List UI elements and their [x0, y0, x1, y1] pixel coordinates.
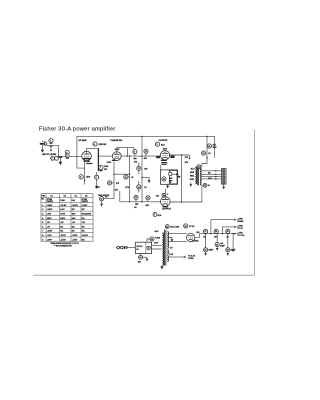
rectifier output jog: [195, 234, 199, 238]
wire V4 plate to transformer: [170, 185, 202, 202]
tube type callout 12DC62: [93, 142, 107, 146]
svg-text:170V: 170V: [60, 214, 65, 216]
svg-text:50: 50: [105, 197, 107, 199]
svg-text:100: 100: [214, 237, 217, 239]
wire input drop: [58, 145, 60, 156]
svg-text:-60V*: -60V*: [47, 239, 52, 241]
wire rail drop mid: [141, 136, 143, 201]
svg-text:17: 17: [147, 198, 149, 200]
capacitor C16 callout lower: [134, 195, 138, 202]
svg-text:SW: SW: [138, 261, 141, 263]
tube V2 triode phase inverter: [112, 152, 121, 161]
resistor R4 callout: [65, 154, 69, 158]
ground transformer bottom: [160, 266, 163, 270]
wire input top: [45, 144, 59, 146]
svg-text:-100V: -100V: [47, 205, 53, 207]
svg-text:28: 28: [215, 231, 217, 233]
capacitor C5 bars: [133, 158, 136, 159]
svg-text:BLU: BLU: [191, 168, 196, 170]
svg-text:8: 8: [80, 177, 81, 179]
node grid junction: [141, 155, 142, 156]
fuse inside box: [147, 246, 150, 249]
svg-text:16: 16: [208, 185, 210, 187]
wires interlock to transformer: [152, 245, 162, 249]
svg-text:INPUT LEVEL: INPUT LEVEL: [42, 154, 57, 156]
svg-text:20: 20: [208, 146, 210, 148]
svg-text:270: 270: [104, 169, 107, 171]
capacitor C16 bars: [135, 203, 138, 204]
heater wire arrow: [169, 255, 196, 260]
AC plug P1: [116, 246, 128, 249]
svg-text:HTRS: HTRS: [188, 258, 194, 260]
capacitor C2b bar: [66, 157, 69, 158]
ground below box: [166, 184, 169, 188]
svg-text:117V: 117V: [154, 243, 159, 245]
svg-text:NC(180V): NC(180V): [82, 214, 91, 216]
resistor R19 callout screen: [202, 151, 212, 155]
svg-text:12DC62: 12DC62: [98, 144, 107, 146]
svg-text:6.3V: 6.3V: [60, 209, 65, 211]
wire V1 to V2: [98, 155, 112, 157]
voltage chart table frame: [41, 194, 93, 242]
input jack J1: [40, 141, 47, 145]
capacitor C2 to ground: [59, 157, 63, 166]
svg-text:1500: 1500: [86, 177, 90, 179]
svg-text:V2: V2: [64, 195, 66, 197]
svg-text:AF AMP: AF AMP: [78, 139, 87, 142]
svg-text:115 AC: 115 AC: [136, 245, 143, 248]
svg-text:30: 30: [216, 244, 218, 246]
B+ rail arrow 275V: [234, 232, 245, 237]
svg-text:-170V: -170V: [60, 235, 66, 237]
svg-text:2: 2: [52, 158, 53, 160]
potentiometer R2 input level: [51, 157, 59, 161]
capacitor C5 callout on wire: [133, 150, 137, 157]
switch S1 callout: [138, 254, 147, 264]
svg-text:-170V: -170V: [72, 235, 78, 237]
resistor column R5 R6 plate loads: [98, 148, 111, 171]
speaker terminal strip TS1: [221, 169, 226, 185]
svg-text:27V: 27V: [125, 187, 129, 189]
table header row 2: [42, 199, 89, 203]
svg-text:5: 5: [134, 152, 135, 154]
svg-text:-100V: -100V: [82, 205, 88, 207]
table row lines: [41, 197, 93, 237]
resistor R9 callout: [95, 172, 99, 189]
svg-text:12AX7): 12AX7): [47, 200, 54, 203]
svg-text:-36.5V: -36.5V: [82, 235, 89, 237]
svg-text:NC: NC: [82, 218, 85, 220]
svg-text:2.7V: 2.7V: [96, 187, 101, 189]
svg-text:40MF: 40MF: [208, 249, 214, 252]
svg-text:7: 7: [100, 167, 101, 169]
svg-text:13: 13: [138, 168, 140, 170]
ground at switch: [146, 257, 149, 261]
svg-text:10W: 10W: [213, 147, 217, 149]
tube type callout 6L6 bottom: [153, 212, 162, 216]
table column lines: [46, 194, 81, 242]
svg-text:BRN: BRN: [190, 172, 195, 174]
svg-text:9: 9: [96, 177, 97, 179]
svg-text:22: 22: [204, 185, 206, 187]
riser 10V: [119, 191, 121, 202]
svg-text:-170V: -170V: [72, 239, 78, 241]
lower grid wire to V4: [120, 201, 161, 203]
page right rule: [254, 130, 256, 275]
svg-text:350-0-350: 350-0-350: [170, 227, 179, 229]
rectifier callout: [184, 224, 195, 228]
tube V1 triode 12DC62: [82, 151, 92, 161]
tap junction dots: [215, 170, 217, 172]
capacitor stack in box: [169, 172, 173, 183]
ground below terminal strip: [222, 184, 225, 189]
wire plate coupling vertical: [126, 148, 128, 157]
wire V3 plate right: [170, 154, 190, 156]
rail end drop: [214, 136, 216, 157]
secondary tap wires: [201, 171, 222, 179]
svg-text:15: 15: [100, 199, 102, 201]
svg-text:9: 9: [154, 214, 155, 216]
resistor R3 callout: [65, 151, 69, 155]
svg-text:18: 18: [163, 179, 165, 181]
svg-text:16: 16: [135, 197, 137, 199]
screen supply drop: [202, 136, 207, 167]
capacitor C3 bars: [99, 170, 102, 173]
ground below input jack: [41, 145, 44, 153]
interlock box: [135, 242, 151, 253]
resistor R7 callout: [99, 165, 109, 171]
resistor R18 callout in box: [162, 177, 166, 181]
resistor R23 callout grid: [156, 193, 169, 197]
resistor R20 callout 47K: [207, 143, 216, 149]
HV secondary wires to rectifier: [169, 233, 187, 241]
feedback box inner: [169, 170, 177, 184]
table body values: [42, 205, 91, 241]
branch wire 370V: [210, 218, 244, 234]
svg-text:31: 31: [204, 250, 206, 252]
svg-text:NC: NC: [72, 226, 75, 228]
svg-text:260MA: 260MA: [237, 220, 244, 223]
ground below balance: [100, 201, 103, 207]
svg-text:360: 360: [196, 232, 199, 234]
resistor R10 callout on V2 base: [104, 160, 130, 199]
svg-text:RED: RED: [190, 175, 195, 177]
wire V2 plate up: [117, 148, 128, 152]
resistor R1 callout on input wire: [49, 139, 53, 143]
svg-text:TO 6.3V: TO 6.3V: [188, 255, 196, 257]
resistor R10 callout: [108, 181, 120, 185]
power transformer T2: [162, 230, 168, 266]
svg-text:26: 26: [185, 226, 187, 228]
potentiometer R15 balance: [100, 197, 108, 201]
choke L3 callout: [226, 229, 230, 238]
svg-text:NC: NC: [82, 239, 85, 241]
tube V3 output 6L6: [160, 151, 169, 160]
svg-text:NC: NC: [60, 231, 63, 233]
B+ filter rail: [200, 233, 235, 235]
svg-text:330: 330: [156, 196, 159, 198]
svg-text:400: 400: [144, 157, 147, 160]
svg-text:5V 3A: 5V 3A: [189, 225, 195, 228]
svg-text:FUSE: FUSE: [155, 237, 161, 239]
ground transformer bottom left: [189, 183, 192, 187]
svg-text:10MF: 10MF: [220, 246, 226, 248]
arrow out of box: [172, 173, 180, 177]
svg-text:180V: 180V: [60, 218, 65, 220]
svg-text:32: 32: [227, 250, 229, 252]
svg-text:NC: NC: [72, 209, 75, 211]
svg-text:8: 8: [94, 144, 95, 146]
svg-text:Fisher 30-A power amplifier: Fisher 30-A power amplifier: [39, 126, 116, 132]
svg-text:-1.5V: -1.5V: [47, 235, 53, 237]
svg-text:-100V: -100V: [47, 231, 53, 233]
svg-text:OUTPUT: OUTPUT: [162, 208, 172, 210]
svg-text:-60V: -60V: [47, 214, 52, 216]
svg-text:270: 270: [116, 183, 119, 185]
svg-text:19: 19: [202, 153, 204, 155]
svg-text:29: 29: [227, 231, 229, 233]
svg-text:24V: 24V: [72, 213, 76, 216]
svg-text:1: 1: [50, 141, 51, 143]
transformer T1 callout: [197, 165, 201, 169]
resistor R13 callout: [134, 161, 149, 174]
svg-text:PHASE INV: PHASE INV: [111, 139, 123, 142]
svg-text:275: 275: [185, 157, 188, 159]
svg-text:12AX7): 12AX7): [82, 200, 89, 203]
ground arrow mid: [141, 177, 150, 183]
svg-text:-170V: -170V: [60, 239, 66, 241]
tube V4 output 6L6: [161, 197, 171, 208]
screen tie vertical: [181, 155, 183, 202]
filter capacitor C22: [226, 233, 237, 256]
wire V1 plate to load column: [87, 148, 99, 151]
test point arrow 26V: [185, 155, 191, 164]
svg-text:270K: 270K: [107, 162, 112, 164]
svg-text:OUTPUT: OUTPUT: [159, 140, 169, 142]
filter capacitor C21: [204, 233, 215, 256]
svg-text:NC: NC: [72, 231, 75, 233]
svg-text:21: 21: [198, 166, 200, 168]
node rail junctions: [141, 136, 142, 137]
node input junction: [58, 156, 59, 157]
svg-text:5U4GB: 5U4GB: [192, 239, 199, 242]
choke L1 callout: [203, 229, 208, 238]
svg-text:TO V2: TO V2: [237, 228, 242, 230]
tube type callout 6L6 top: [155, 142, 165, 147]
resistor R17 callout lower: [146, 196, 150, 207]
resistor R14 callout: [137, 181, 148, 193]
capacitor C1 bars: [50, 143, 53, 151]
svg-text:25: 25: [166, 226, 168, 228]
svg-text:-10.5V: -10.5V: [60, 205, 67, 207]
feedback wire to V1 cathode: [77, 136, 85, 168]
svg-text:-10.5V: -10.5V: [72, 205, 79, 207]
svg-text:NC: NC: [82, 226, 85, 228]
node dots lower wire: [129, 201, 130, 202]
feedback box outer: [161, 170, 178, 184]
tube V1 cathode parts: [83, 158, 93, 164]
svg-text:10: 10: [108, 183, 110, 185]
svg-text:9: 9: [157, 144, 158, 146]
branch wire 330V: [222, 226, 244, 235]
fuse F1 callout: [147, 237, 161, 242]
B+ top rail: [77, 135, 215, 137]
svg-text:180V: 180V: [47, 218, 52, 220]
bleeder branch: [232, 233, 235, 252]
wire V4 top to box: [164, 189, 166, 197]
svg-text:-100V: -100V: [47, 209, 53, 211]
svg-text:NC: NC: [82, 209, 85, 211]
svg-text:6L6: 6L6: [72, 200, 75, 202]
svg-text:TO V3,4: TO V3,4: [237, 234, 245, 237]
svg-text:NC: NC: [60, 226, 63, 228]
resistor R12 callout on wire: [144, 149, 148, 160]
choke L2 callout: [214, 229, 218, 238]
filter capacitor C20: [215, 234, 226, 251]
svg-text:11: 11: [125, 177, 127, 179]
resistor R11 callout cross couple: [124, 155, 134, 201]
svg-text:6.3V: 6.3V: [115, 149, 120, 151]
svg-text:30: 30: [163, 195, 165, 197]
svg-text:V1: V1: [51, 195, 53, 197]
svg-text:16Ω: 16Ω: [208, 178, 212, 180]
svg-text:23: 23: [151, 239, 153, 241]
svg-text:BLK: BLK: [155, 231, 160, 233]
svg-text:.05: .05: [134, 207, 137, 209]
svg-text:24V: 24V: [72, 217, 76, 220]
svg-text:* MEASURED FROM PIN 7 OF V1: * MEASURED FROM PIN 7 OF V1: [50, 242, 79, 245]
svg-text:100K: 100K: [104, 166, 109, 168]
output transformer T1: [195, 166, 201, 185]
tube V5 rectifier 5U4GB: [187, 233, 200, 242]
wire grid V1: [59, 155, 82, 157]
svg-text:27: 27: [204, 231, 206, 233]
wires plug to interlock: [128, 247, 136, 249]
wire cathode to box: [160, 165, 162, 170]
svg-text:60: 60: [136, 249, 138, 251]
svg-text:NC: NC: [82, 231, 85, 233]
svg-text:430V: 430V: [163, 148, 168, 151]
wire plate to coupling cap: [127, 148, 134, 153]
tube V3 cathode parts: [156, 156, 174, 165]
resistor R22 callout under transformer: [203, 184, 210, 188]
svg-text:V3: V3: [75, 195, 77, 197]
svg-text:+40: +40: [220, 242, 223, 245]
svg-text:GRN: GRN: [190, 179, 195, 181]
wire V2 to V3: [121, 155, 160, 157]
center tap ground: [169, 238, 174, 242]
page bottom rule: [33, 274, 255, 276]
transformer T2 callout: [165, 225, 179, 229]
svg-text:** NO CONNECTION: ** NO CONNECTION: [54, 246, 72, 248]
table header row 1: [42, 194, 89, 197]
resistor R8 callout cathode V1: [79, 161, 90, 185]
svg-text:12: 12: [145, 151, 147, 153]
svg-text:47: 47: [131, 176, 133, 179]
